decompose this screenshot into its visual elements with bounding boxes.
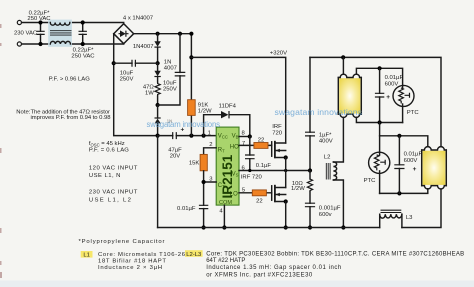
transistor Q1 IRF720 (high side) xyxy=(271,142,273,156)
svg-text:250V: 250V xyxy=(120,77,134,83)
svg-text:fOSC = 45 kHz: fOSC = 45 kHz xyxy=(89,141,125,147)
svg-text:+: + xyxy=(386,94,390,101)
svg-text:L2-L3: L2-L3 xyxy=(186,252,202,258)
svg-text:7: 7 xyxy=(242,141,245,147)
wire: half-bridge midpoint xyxy=(285,158,287,188)
wire: lamp1 bottom-right pin / starter bottom xyxy=(356,117,402,122)
capacitor C5 10uF 250V (vertical) xyxy=(175,72,186,76)
svg-text:or XFMRS Inc. part #XFC213EE30: or XFMRS Inc. part #XFC213EE30 xyxy=(206,273,313,279)
node: C1 top junction xyxy=(38,20,42,24)
svg-text:11DF4: 11DF4 xyxy=(219,103,237,109)
thermistor PTC2 (series) xyxy=(379,136,381,155)
svg-text:Core: TDK PC30EE302 Bobbin: T: Core: TDK PC30EE302 Bobbin: TDK BE30-111… xyxy=(206,251,464,257)
inductor L3 (series in return) xyxy=(380,214,402,227)
capacitor C2 0.22uF 250VAC (after choke) xyxy=(82,23,84,45)
wire: lamp2 bottom-right pin down to rail corner xyxy=(402,189,441,228)
svg-text:IRF: IRF xyxy=(272,124,282,130)
svg-text:P.F. > 0.96 LAG: P.F. > 0.96 LAG xyxy=(49,77,90,83)
svg-text:1: 1 xyxy=(208,130,211,136)
svg-text:improves P.F. from 0.94 to 0.9: improves P.F. from 0.94 to 0.98 xyxy=(31,115,112,121)
capacitor C11 0.01uF 600V (lamp1) xyxy=(379,68,381,122)
svg-text:15K: 15K xyxy=(189,161,200,167)
svg-text:Note:: Note: xyxy=(16,109,30,115)
svg-text:*Polypropylene Capacitor: *Polypropylene Capacitor xyxy=(79,239,165,245)
node: junction 47ohm / charge cap bottom xyxy=(156,103,160,107)
svg-text:swagatam innovations: swagatam innovations xyxy=(147,120,221,129)
svg-text:10uF: 10uF xyxy=(120,71,134,77)
node: resonant node junction xyxy=(308,168,312,172)
capacitor C6 47uF 20V (horizontal, polarized) xyxy=(158,135,217,137)
svg-text:250V: 250V xyxy=(163,86,177,92)
svg-text:120 VAC INPUT: 120 VAC INPUT xyxy=(89,166,138,172)
wire: lamp top rail xyxy=(310,57,441,146)
svg-text:HO: HO xyxy=(230,145,239,151)
svg-text:0.001µF: 0.001µF xyxy=(319,206,341,212)
svg-text:230 VAC INPUT: 230 VAC INPUT xyxy=(89,190,138,196)
capacitor C4 10uF 250V (horizontal) xyxy=(114,62,158,64)
svg-text:0.01µF: 0.01µF xyxy=(177,206,196,212)
svg-text:400V: 400V xyxy=(319,139,333,145)
node: pin4 on bottom rail xyxy=(222,225,226,229)
diode D6 1N4007 (vertical) xyxy=(157,63,159,82)
wire: +320V rail xyxy=(191,57,285,143)
input terminal T1 (line) xyxy=(17,20,21,24)
node: C2 bottom junction xyxy=(81,42,85,46)
svg-text:4007: 4007 xyxy=(164,65,177,71)
svg-text:COM: COM xyxy=(219,200,232,206)
transistor Q2 IRF720 (low side) xyxy=(271,186,273,200)
wire: circuit2 bottom line xyxy=(380,189,428,194)
capacitor C10 0.001uF 600V xyxy=(305,203,315,207)
resistor R1 47ohm 1W (zigzag) xyxy=(155,82,160,96)
svg-text:0.01µF: 0.01µF xyxy=(404,152,423,158)
capacitor C12 0.01uF 600V (lamp2) xyxy=(398,136,400,194)
node: Vcc junction 91K bottom xyxy=(189,134,193,138)
node: lamp1 top pin junction xyxy=(341,55,345,59)
node: Q2 source junction xyxy=(284,199,288,203)
badge L1 xyxy=(81,251,93,258)
svg-text:1/2W: 1/2W xyxy=(198,108,212,114)
resistor R5 22 (gate M2) xyxy=(239,192,272,194)
resistor R2 91K 1/2W xyxy=(190,115,192,135)
node: Vcc junction bootstrap branch xyxy=(202,134,206,138)
inductor L2 (resonant, series to lamp1) xyxy=(333,118,343,163)
wire: lamp1 top-right pin to starter net xyxy=(356,68,402,88)
svg-text:22: 22 xyxy=(256,198,263,204)
diode D5 1N4007 (vertical) xyxy=(157,34,159,64)
svg-text:64T #22 HATP: 64T #22 HATP xyxy=(206,258,245,264)
wire: COM column down to bottom rail xyxy=(157,136,159,228)
pin 8 stub VB xyxy=(239,136,250,138)
capacitor C8 0.1uF (bootstrap) xyxy=(249,137,251,171)
svg-text:230 VAC: 230 VAC xyxy=(14,30,38,36)
pin 2 wire to Rt xyxy=(204,148,217,155)
capacitor C9 1uF 400V (DC block) xyxy=(309,57,311,170)
svg-text:1N4007: 1N4007 xyxy=(133,44,154,50)
node: rail corner junction xyxy=(189,32,193,36)
IC U1 IR2151 body xyxy=(216,127,239,205)
svg-text:Core: Micrometals T106-26: Core: Micrometals T106-26 xyxy=(98,252,186,258)
IC internal labels xyxy=(218,133,239,206)
svg-text:22: 22 xyxy=(258,138,265,144)
node: Ct cap on bottom rail xyxy=(202,225,206,229)
wire: right vertical +rail down to 91K xyxy=(190,34,192,100)
lamp FL2 (fluorescent tube) xyxy=(423,151,446,185)
svg-text:600v: 600v xyxy=(319,212,332,218)
capacitor C7 0.01uF (Ct) xyxy=(199,205,208,208)
node: Q2 source on bottom rail xyxy=(284,225,288,229)
pin 3 wire / Ct node xyxy=(204,171,217,206)
node: C1 bottom junction xyxy=(38,42,42,46)
svg-text:720: 720 xyxy=(272,131,283,137)
wire: DC plus rail from bridge right corner to dropper column xyxy=(134,33,192,35)
lamp FL1 (fluorescent tube) xyxy=(339,78,360,113)
node: COM junction (DC- / zener / 47uF) xyxy=(156,134,160,138)
node: Q1 source junction xyxy=(284,155,288,159)
wire: Vs line pin6 to resonant column xyxy=(239,170,310,172)
svg-text:L3: L3 xyxy=(406,215,413,221)
svg-text:20V: 20V xyxy=(170,154,181,160)
svg-text:VCC: VCC xyxy=(218,133,228,139)
input terminal T2 (neutral) xyxy=(17,42,21,46)
node: Vs / half-bridge midpoint junction xyxy=(284,169,287,172)
svg-text:PTC: PTC xyxy=(364,178,377,184)
thermistor PTC1 xyxy=(393,85,414,106)
node: rail junction D5 branch xyxy=(156,32,160,36)
node: junction DC- with 10uF cap xyxy=(112,61,116,65)
node: rail junction charge-cap branch xyxy=(178,32,182,36)
resistor R3 15K (Rt) xyxy=(200,154,207,170)
svg-text:L1: L1 xyxy=(83,253,90,259)
capacitor C1 0.22uF 250VAC (input) xyxy=(40,23,42,45)
wire: top AC line from terminals to choke and bridge xyxy=(22,22,124,24)
node: Vs / 0.1uF junction xyxy=(248,169,251,172)
svg-text:0.1µF: 0.1µF xyxy=(256,163,272,169)
svg-text:18T Bifilar #18 HAPT: 18T Bifilar #18 HAPT xyxy=(98,258,166,264)
svg-text:IR2151: IR2151 xyxy=(220,154,235,198)
wire: Q2 source to bottom rail xyxy=(285,202,287,228)
wire: bottom AC line xyxy=(22,43,124,45)
wire: circuit2 feed down and top line xyxy=(380,123,428,147)
svg-text:RT: RT xyxy=(218,147,225,153)
node: +320V takeoff junction xyxy=(189,55,193,59)
resistor R6 10ohm 1/2W (zigzag) xyxy=(309,171,311,180)
badge L2-L3 xyxy=(185,250,203,257)
wire: DC minus from bridge left corner down and right to COM node xyxy=(114,34,158,136)
node: Ct junction xyxy=(202,180,206,184)
svg-text:VB: VB xyxy=(232,133,239,139)
resistor R4 22 (gate M1) xyxy=(239,144,272,146)
svg-text:Inductance 2 × 3µH: Inductance 2 × 3µH xyxy=(98,265,162,271)
bridge rectifier BR1 4x1N4007 xyxy=(114,24,134,44)
wire: lamp1 top-left pin xyxy=(342,57,344,74)
svg-text:swagatam innovations: swagatam innovations xyxy=(275,107,363,117)
svg-text:1/2W: 1/2W xyxy=(291,186,305,192)
svg-text:4 x 1N4007: 4 x 1N4007 xyxy=(123,16,153,22)
svg-text:1W: 1W xyxy=(145,90,154,96)
svg-text:P.F. = 0.6 LAG: P.F. = 0.6 LAG xyxy=(89,148,129,154)
svg-text:L2: L2 xyxy=(324,155,331,161)
svg-text:+320V: +320V xyxy=(270,50,287,56)
svg-text:USE L1, L2: USE L1, L2 xyxy=(89,197,131,203)
node: lamp loop on bottom rail xyxy=(341,225,345,229)
svg-text:IRF 720: IRF 720 xyxy=(241,175,263,181)
svg-text:Inductance 1.35 mH: Gap spacer: Inductance 1.35 mH: Gap spacer 0.01 inch xyxy=(206,265,341,271)
node: starter1 cap top junction xyxy=(378,66,382,70)
node: starter2 cap top junction xyxy=(397,134,401,138)
node: starter1 bottom / circuit2 feed junction xyxy=(378,120,382,124)
node: VB junction xyxy=(248,134,252,138)
svg-text:2: 2 xyxy=(209,142,212,148)
svg-text:USE L1, N: USE L1, N xyxy=(89,173,121,179)
bottom rail xyxy=(158,227,380,229)
svg-text:250 VAC: 250 VAC xyxy=(71,53,95,59)
wire: charge cap branch xyxy=(158,34,180,105)
node: 0.001uF on bottom rail xyxy=(308,225,312,229)
svg-text:250 VAC: 250 VAC xyxy=(27,16,51,22)
svg-text:10uF: 10uF xyxy=(163,80,177,86)
node: starter2 cap bottom junction xyxy=(397,191,401,195)
common-mode choke L1 (blue box) xyxy=(48,20,72,47)
node: junction D5/D6 with 10uF cap xyxy=(156,61,160,65)
svg-text:600V: 600V xyxy=(385,81,399,87)
svg-text:600V: 600V xyxy=(404,158,418,164)
node: C2 top junction xyxy=(81,20,85,24)
zener diode ZD1 (vertical, cathode up) xyxy=(157,105,159,136)
svg-text:0.01µF: 0.01µF xyxy=(385,75,404,81)
svg-text:PTC: PTC xyxy=(407,110,420,116)
pin 4 wire COM xyxy=(223,205,225,227)
svg-text:+: + xyxy=(413,166,417,173)
diode D7 11DF4 (bootstrap) xyxy=(204,115,250,137)
